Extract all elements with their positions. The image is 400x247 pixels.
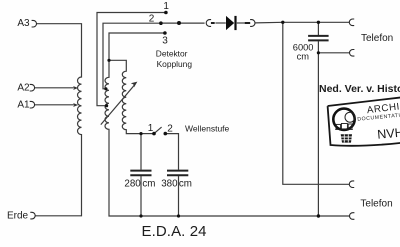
svg-text:1: 1 [163, 1, 169, 12]
svg-text:1: 1 [148, 123, 154, 134]
svg-text:cm: cm [179, 178, 192, 189]
svg-text:2: 2 [149, 14, 155, 25]
svg-text:3: 3 [162, 35, 168, 46]
svg-text:Erde: Erde [7, 210, 29, 221]
svg-text:NVHR: NVHR [377, 125, 400, 142]
svg-text:E.D.A. 24: E.D.A. 24 [142, 223, 207, 240]
svg-text:Kopplung: Kopplung [157, 59, 193, 69]
svg-text:Detektor: Detektor [156, 49, 188, 59]
svg-text:cm: cm [297, 51, 310, 61]
svg-text:Ned. Ver. v. Historie: Ned. Ver. v. Historie [319, 83, 400, 95]
svg-text:380: 380 [161, 178, 178, 189]
svg-text:A2: A2 [17, 83, 30, 94]
svg-text:A3: A3 [17, 18, 30, 29]
svg-text:Telefon: Telefon [361, 33, 393, 44]
svg-text:cm: cm [142, 178, 155, 189]
svg-text:A1: A1 [17, 100, 30, 111]
svg-text:2: 2 [167, 123, 173, 134]
svg-text:280: 280 [124, 178, 141, 189]
svg-text:Wellenstufe: Wellenstufe [185, 124, 230, 134]
svg-text:Telefon: Telefon [360, 199, 392, 210]
